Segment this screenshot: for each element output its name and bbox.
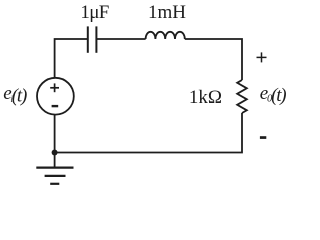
voltage source U1 circle [37,78,74,115]
minus sign inside source [52,105,59,107]
svg-text:1kΩ: 1kΩ [189,87,222,108]
svg-text:1mH: 1mH [148,2,186,23]
svg-text:ei(t): ei(t) [3,83,27,106]
output plus sign [257,52,267,62]
svg-text:1μF: 1μF [80,2,108,23]
ground symbol [36,168,73,184]
inductor L1 coil [146,32,185,39]
wire: inductor to top-right corner and down to resistor [185,39,242,80]
capacitor C1 plates [88,26,97,52]
resistor R1 zigzag [237,80,247,113]
wire: top-left horizontal from source corner to capacitor [55,39,88,78]
wire: source bottom down to junction/ground [54,114,56,167]
svg-text:e0(t): e0(t) [260,83,287,106]
output minus sign [260,136,266,139]
junction node dot [52,150,58,156]
plus sign inside source [50,83,59,92]
wire: capacitor to inductor [96,38,145,40]
wire: resistor bottom to bottom-right corner and along bottom to junction [55,113,242,153]
